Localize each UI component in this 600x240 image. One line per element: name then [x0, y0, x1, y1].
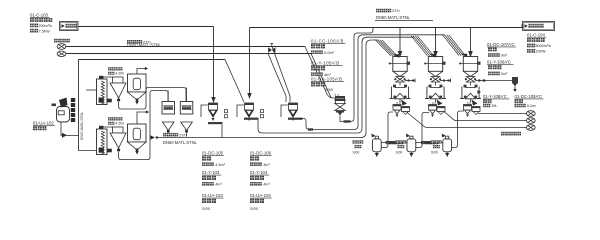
- svg-text:15KW: 15KW: [536, 49, 547, 53]
- svg-text:4.2t/h: 4.2t/h: [116, 122, 125, 126]
- svg-text:✕✕: ✕✕: [396, 101, 402, 105]
- svg-text:S/00: S/00: [250, 207, 258, 211]
- svg-text:DN50 MATL:STNL: DN50 MATL:STNL: [80, 112, 84, 140]
- svg-text:01-C-104: 01-C-104: [527, 32, 546, 37]
- svg-text:3T/h: 3T/h: [392, 9, 400, 13]
- svg-text:S/00: S/00: [325, 88, 333, 92]
- svg-text:✕✕: ✕✕: [467, 101, 473, 105]
- svg-text:4m³: 4m³: [215, 182, 222, 186]
- svg-text:01-Y-105A’B: 01-Y-105A’B: [311, 61, 340, 66]
- svg-text:01-DC-106: 01-DC-106: [250, 151, 272, 156]
- svg-text:290m³/h: 290m³/h: [39, 24, 53, 28]
- svg-text:01-Y-108A’C: 01-Y-108A’C: [483, 94, 507, 99]
- svg-text:6.0m³: 6.0m³: [324, 51, 334, 55]
- svg-text:✕✕: ✕✕: [432, 101, 438, 105]
- svg-text:01-DC-108A’C: 01-DC-108A’C: [515, 94, 543, 99]
- svg-text:S/00: S/00: [202, 207, 210, 211]
- svg-text:7.5KW: 7.5KW: [39, 29, 51, 33]
- svg-text:5m³: 5m³: [501, 72, 508, 76]
- svg-text:01-C-103: 01-C-103: [30, 13, 49, 18]
- svg-text:4.2t/h: 4.2t/h: [116, 72, 125, 76]
- svg-text:DN80 MATL:STNL: DN80 MATL:STNL: [376, 15, 411, 20]
- svg-text:01-Y-103: 01-Y-103: [202, 170, 220, 175]
- svg-text:01-CC-106A’B: 01-CC-106A’B: [311, 39, 344, 44]
- svg-text:4.5m³: 4.5m³: [215, 163, 225, 167]
- svg-text:01-UA-105A’B: 01-UA-105A’B: [311, 77, 342, 82]
- svg-text:01-DC-105: 01-DC-105: [202, 151, 224, 156]
- svg-text:DN50 MATL:STNL: DN50 MATL:STNL: [127, 42, 162, 47]
- svg-text:✕✕: ✕✕: [334, 93, 340, 97]
- svg-text:S/00: S/00: [431, 151, 438, 155]
- svg-text:01-UA-102: 01-UA-102: [33, 121, 54, 126]
- svg-text:5.3m³: 5.3m³: [527, 104, 537, 108]
- svg-text:9m³: 9m³: [501, 54, 508, 58]
- svg-text:4m³: 4m³: [263, 182, 270, 186]
- svg-text:3m³: 3m³: [263, 163, 270, 167]
- svg-text:01-DC-107A’C: 01-DC-107A’C: [487, 42, 515, 47]
- svg-text:5000m³/h: 5000m³/h: [536, 44, 552, 48]
- svg-text:2T/h: 2T/h: [179, 133, 187, 137]
- svg-text:01-Y-104: 01-Y-104: [250, 170, 268, 175]
- svg-text:01-UA-104: 01-UA-104: [250, 193, 271, 198]
- svg-text:DN50 MATL:STNL: DN50 MATL:STNL: [163, 140, 198, 145]
- svg-text:S/00: S/00: [396, 151, 403, 155]
- svg-text:S/00: S/00: [353, 151, 360, 155]
- svg-text:30L: 30L: [492, 104, 498, 108]
- svg-text:01-UA-103: 01-UA-103: [202, 193, 223, 198]
- svg-text:01-Y-106A’C: 01-Y-106A’C: [487, 60, 511, 65]
